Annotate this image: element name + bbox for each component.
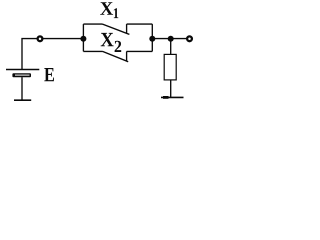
wire: battery negative down <box>21 77 23 100</box>
battery E negative plate <box>12 73 31 77</box>
label E <box>44 68 54 81</box>
switch X1 left lead <box>83 23 102 25</box>
switch X1 blade <box>103 24 130 34</box>
wire: battery positive up and right to terminal <box>22 39 37 70</box>
battery E negative plate slit <box>15 74 30 76</box>
switch X2 fixed contact stub <box>126 51 128 60</box>
terminal circle (right output) <box>187 36 192 41</box>
solder blob on bottom bar <box>163 96 169 99</box>
node B junction dot <box>149 36 155 42</box>
wire: terminal circle to node A <box>43 38 83 40</box>
battery E positive plate <box>6 69 39 71</box>
switch X1 right lead <box>127 23 153 25</box>
switch X2 right lead <box>127 50 153 52</box>
switch X1 fixed contact stub <box>126 24 128 33</box>
wire: left riser between branch points <box>82 24 84 51</box>
battery bottom terminal bar <box>14 99 31 101</box>
wire: node B to output terminal <box>152 38 186 40</box>
node A junction dot <box>80 36 86 42</box>
label X2 <box>101 33 114 46</box>
switch X2 blade <box>103 51 129 61</box>
resistor bottom terminal bar <box>161 96 184 98</box>
node C junction dot <box>168 36 174 42</box>
label X1 <box>100 2 113 15</box>
wire: node C down to resistor <box>170 39 172 55</box>
switch X2 left lead <box>83 50 102 52</box>
wire: right riser joining branches <box>151 24 153 51</box>
resistor R body <box>164 54 176 80</box>
terminal circle (left, on main wire) <box>38 36 43 41</box>
wire: resistor to bottom terminal bar <box>170 80 172 98</box>
